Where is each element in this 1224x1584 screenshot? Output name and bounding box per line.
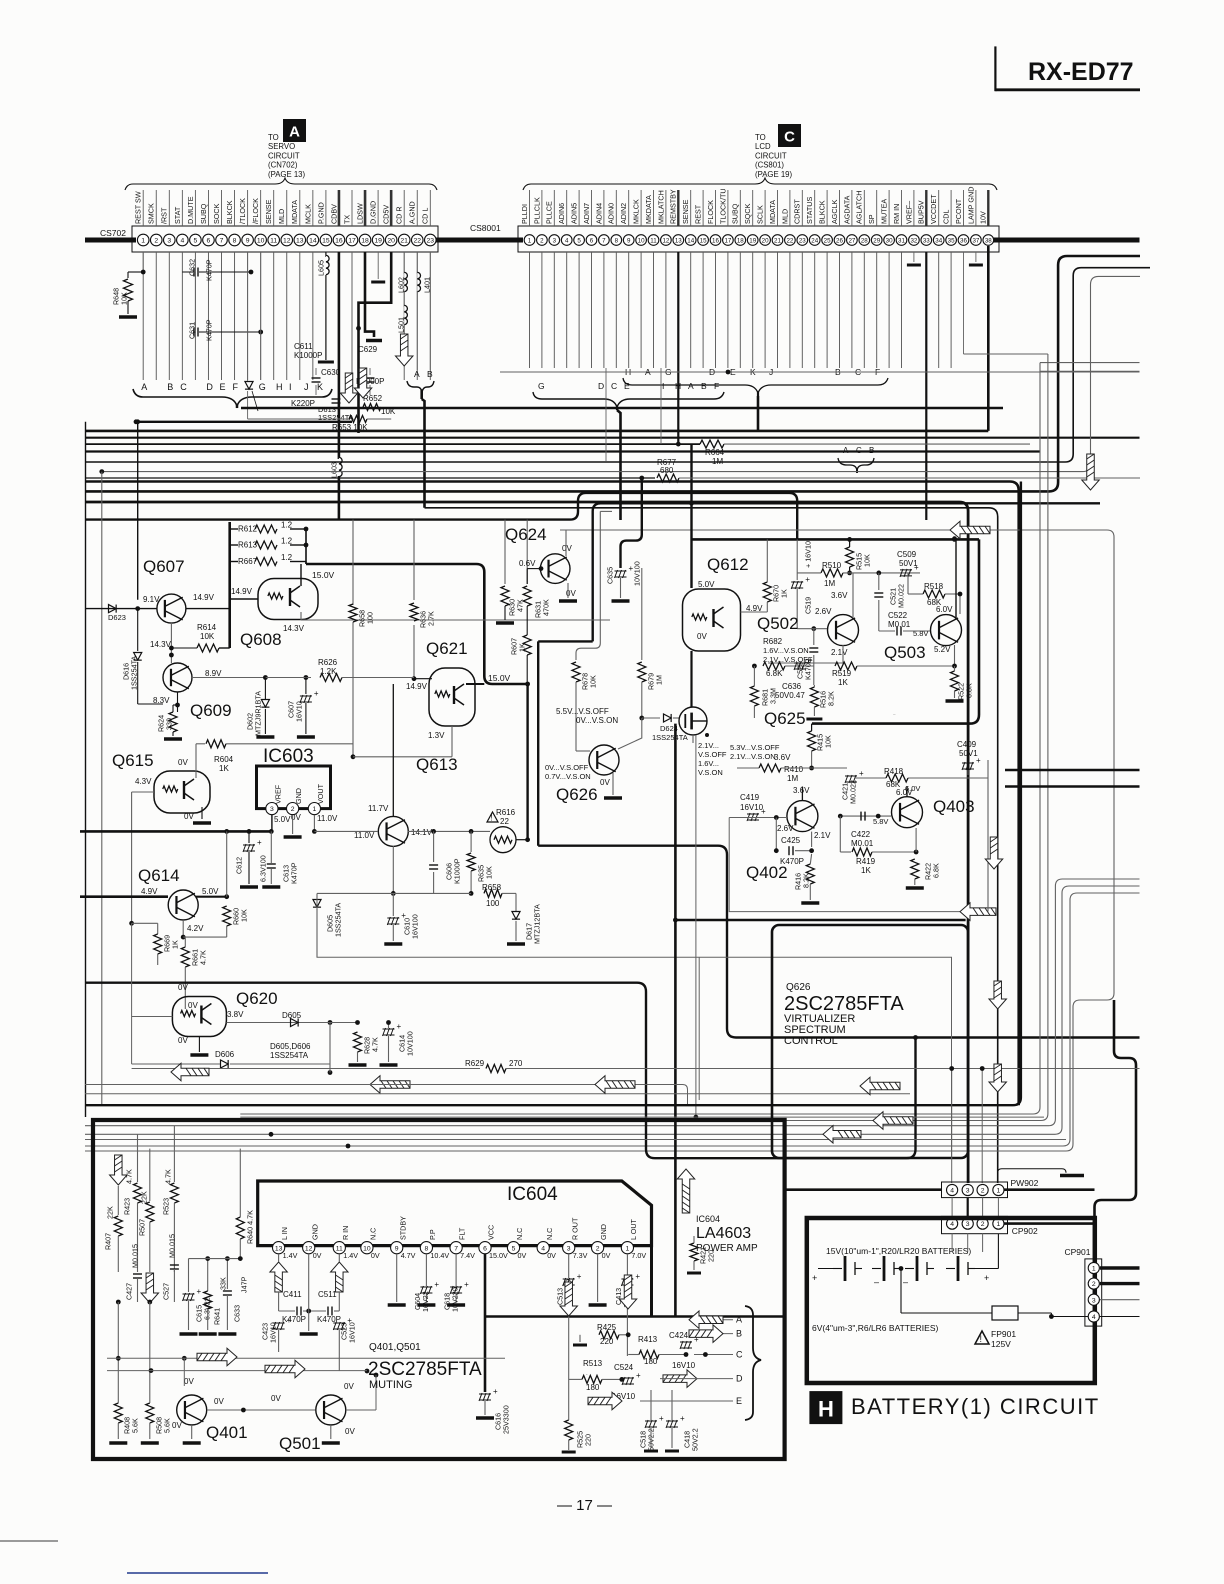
svg-text:22K: 22K	[140, 1191, 149, 1204]
resistor R658b	[349, 604, 357, 622]
capacitor C513	[563, 1272, 582, 1286]
ground pin2	[589, 1303, 607, 1307]
svg-text:20: 20	[387, 238, 395, 245]
wire CS702 pin10 upper lead	[260, 190, 262, 226]
svg-text:ADIN0: ADIN0	[607, 203, 616, 224]
wire to C607	[305, 678, 307, 695]
svg-text:/FLOCK: /FLOCK	[251, 198, 260, 224]
warning triangle R616	[487, 812, 498, 822]
svg-text:K470P: K470P	[205, 319, 214, 341]
svg-text:2: 2	[540, 238, 544, 245]
arrow left A	[689, 1311, 723, 1329]
CS8001 pin 8	[611, 235, 622, 246]
svg-text:3.3M: 3.3M	[769, 688, 778, 704]
wire thin Q402 loop	[729, 818, 964, 912]
callout box A	[283, 119, 306, 142]
svg-text:15: 15	[322, 238, 330, 245]
svg-text:8: 8	[615, 238, 619, 245]
svg-text:C: C	[611, 381, 617, 391]
wire CS702 pin17 drop	[351, 252, 353, 380]
svg-text:MTZJ9R1BTA: MTZJ9R1BTA	[254, 691, 263, 736]
bus wire y1316 section	[485, 1315, 785, 1318]
wire R423 col	[137, 1134, 139, 1182]
CP902 pin 4	[947, 1218, 958, 1229]
wire Q624 base	[527, 568, 541, 570]
wire thick PW902-CP902 pin3	[967, 1198, 969, 1217]
svg-text:PLLDI: PLLDI	[520, 204, 529, 224]
svg-text:(CS801): (CS801)	[755, 161, 784, 170]
capacitor C613	[267, 864, 276, 868]
svg-text:C519: C519	[804, 597, 813, 614]
wire CS702 pin21 upper lead	[403, 190, 405, 226]
svg-text:0V...V.S.ON: 0V...V.S.ON	[576, 716, 618, 725]
svg-text:50V0.47: 50V0.47	[775, 691, 805, 700]
svg-text:2.7K: 2.7K	[427, 611, 436, 626]
wire R635 col	[470, 831, 472, 852]
wire VOUT to Q613	[314, 830, 378, 832]
wire Q620 out	[226, 1022, 330, 1024]
svg-text:19: 19	[374, 238, 382, 245]
wire Q401 emitter	[191, 1425, 193, 1439]
svg-text:MCLK: MCLK	[303, 204, 312, 224]
wire CS8001 pin17 drop	[727, 252, 729, 368]
svg-text:470K: 470K	[542, 599, 551, 616]
inductor L602	[404, 272, 407, 291]
svg-text:AGCLK: AGCLK	[830, 199, 839, 224]
ground C615	[180, 1332, 198, 1336]
svg-text:MKLATCH: MKLATCH	[656, 190, 665, 224]
CP901 pin 4	[1088, 1311, 1099, 1322]
svg-text:SENSE: SENSE	[264, 199, 273, 224]
svg-text:100: 100	[366, 612, 375, 624]
svg-text:L501: L501	[397, 317, 406, 333]
svg-text:2: 2	[596, 1245, 600, 1252]
svg-text:(PAGE 19): (PAGE 19)	[755, 170, 793, 179]
svg-text:1.2: 1.2	[281, 553, 293, 562]
CS8001 pin 4	[561, 235, 572, 246]
wire thick x593/y503 L	[593, 503, 1100, 641]
svg-text:M0.01: M0.01	[888, 620, 911, 629]
arrow down left bank	[110, 1155, 128, 1185]
ground Q626	[604, 796, 622, 800]
capacitor C418	[666, 1414, 685, 1428]
CS8001 pin 20	[760, 235, 771, 246]
svg-text:4: 4	[950, 1221, 954, 1228]
wire CS8001 pin38 upper lead	[987, 190, 989, 226]
bus wire y462 step-up right	[85, 268, 1150, 462]
resistor R518	[923, 590, 945, 598]
arrow down x994	[985, 837, 1003, 869]
transistor Q403	[892, 797, 923, 828]
CS8001 pin 36	[958, 235, 969, 246]
CS8001 pin 15	[698, 235, 709, 246]
ground C607	[297, 735, 315, 739]
CS8001 pin 13	[673, 235, 684, 246]
svg-text:(CN702): (CN702)	[268, 161, 298, 170]
svg-text:— 17 —: — 17 —	[557, 1497, 612, 1514]
resistor R508	[146, 1403, 154, 1423]
resistor R629	[486, 1065, 506, 1073]
wire CS8001 pin17 upper lead	[727, 190, 729, 226]
diode D616	[134, 653, 142, 661]
CS8001 pin 21	[772, 235, 783, 246]
arrow down pin17 net	[340, 373, 358, 403]
transistor Q614	[168, 890, 198, 920]
svg-text:R523: R523	[162, 1198, 171, 1215]
wire bus CS8001 pin38 to right	[988, 238, 1139, 243]
svg-text:4: 4	[1092, 1314, 1096, 1321]
wire CS8001 pin25 drop	[826, 252, 828, 368]
wire CS8001 pin10 upper lead	[640, 190, 642, 226]
wire CS8001 pin28 drop	[863, 252, 865, 368]
resistor R670	[763, 582, 771, 602]
svg-text:N.C: N.C	[515, 1228, 524, 1240]
svg-text:23: 23	[799, 238, 806, 245]
svg-text:0V: 0V	[518, 1251, 527, 1260]
resistor R604	[206, 740, 226, 748]
wire Q501 col	[375, 1375, 377, 1410]
wire C633 col	[226, 1259, 228, 1289]
svg-text:CD5V: CD5V	[382, 205, 391, 224]
svg-text:7: 7	[454, 1245, 458, 1252]
svg-text:1M: 1M	[824, 579, 835, 588]
svg-text:STAT: STAT	[173, 206, 182, 224]
ground D602	[256, 735, 274, 739]
svg-text:A: A	[414, 369, 420, 379]
svg-text:IC603: IC603	[263, 746, 314, 767]
IC604 pin 9	[391, 1242, 403, 1254]
svg-text:27: 27	[848, 238, 855, 245]
svg-text:0V: 0V	[547, 1251, 556, 1260]
ground pin19 D.GND	[371, 281, 385, 284]
wire CS8001 pin13 upper lead	[677, 190, 679, 226]
bus wire y786 right	[1005, 785, 1140, 787]
wire pin33 BUP5V thick drop	[925, 252, 927, 520]
wire thick x692 down to Q612	[690, 444, 692, 588]
svg-text:34: 34	[935, 238, 942, 245]
svg-text:18: 18	[361, 238, 369, 245]
capacitor C521	[874, 593, 883, 597]
svg-text:19: 19	[749, 238, 756, 245]
resistor R607	[523, 635, 531, 655]
svg-text:5.2V: 5.2V	[934, 645, 951, 654]
wire Q502 base	[797, 628, 827, 630]
svg-text:6.0V: 6.0V	[896, 788, 913, 797]
svg-text:1SS254TA: 1SS254TA	[652, 733, 688, 742]
wire Q503 collector up	[955, 539, 957, 618]
capacitor C606	[429, 865, 438, 869]
brace A B	[407, 381, 434, 392]
wire thin boundary y957	[317, 899, 952, 1157]
resistor R408	[114, 1403, 122, 1423]
capacitor C524	[622, 1371, 641, 1385]
transistor Q612	[683, 589, 741, 651]
wire pin20 CD5V thick	[359, 252, 392, 433]
svg-text:–: –	[903, 1277, 908, 1287]
svg-text:D: D	[598, 381, 604, 391]
svg-text:10: 10	[257, 238, 265, 245]
CS8001 pin 32	[909, 235, 920, 246]
svg-text:15.0V: 15.0V	[489, 1251, 508, 1260]
transistor Q401	[177, 1395, 207, 1425]
svg-text:24: 24	[811, 238, 818, 245]
battery cell 1	[833, 1256, 862, 1281]
diode D605b	[313, 900, 321, 908]
wire CS8001 pin31 drop	[901, 252, 903, 368]
svg-text:2.1V: 2.1V	[814, 831, 831, 840]
bus wire y444	[85, 443, 700, 445]
wire Q624 emitter	[567, 583, 569, 598]
inductor L501	[404, 305, 407, 324]
CS702 pin 10	[255, 234, 267, 246]
resistor R516	[810, 687, 818, 707]
wire into Q608	[230, 598, 258, 600]
resistor R513	[582, 1375, 602, 1383]
svg-text:3: 3	[567, 1245, 571, 1252]
ground Q401	[183, 1441, 201, 1445]
connector CP902 box	[942, 1216, 1008, 1233]
IC604 pin 13	[273, 1242, 285, 1254]
svg-text:3: 3	[1092, 1297, 1096, 1304]
svg-text:5.8V: 5.8V	[913, 629, 928, 638]
audio section frame	[93, 1120, 785, 1459]
CS702 pin 2	[150, 234, 162, 246]
svg-text:R519: R519	[832, 669, 852, 678]
svg-text:0V: 0V	[313, 1251, 322, 1260]
svg-text:16V10: 16V10	[672, 1361, 696, 1370]
svg-text:C633: C633	[233, 1305, 242, 1322]
ground R425	[573, 1344, 587, 1347]
bus wire y831 VREF rail	[80, 830, 271, 833]
svg-text:4.3V: 4.3V	[135, 777, 152, 786]
svg-text:M0.015: M0.015	[168, 1234, 177, 1258]
wire CS702 pin23 drop	[429, 252, 431, 380]
capacitor C518	[645, 1414, 664, 1428]
PW902 pin 3	[962, 1184, 973, 1195]
svg-text:Q615: Q615	[112, 751, 154, 770]
svg-text:R667: R667	[238, 557, 258, 566]
svg-text:15.0V: 15.0V	[488, 673, 511, 683]
wire y1371	[107, 1370, 367, 1372]
capacitor C523	[333, 1316, 352, 1330]
capacitor C615	[183, 1287, 202, 1301]
svg-text:/TLOCK: /TLOCK	[238, 198, 247, 224]
svg-text:L OUT: L OUT	[629, 1218, 638, 1240]
wire CS8001 pin16 upper lead	[715, 190, 717, 226]
svg-text:7: 7	[220, 238, 224, 245]
svg-text:10: 10	[638, 238, 645, 245]
svg-text:7.0V: 7.0V	[631, 1251, 646, 1260]
svg-text:D606: D606	[215, 1050, 235, 1059]
wire E out	[640, 1400, 733, 1402]
svg-text:PCONT: PCONT	[954, 198, 963, 224]
wire Q403 collector up	[906, 787, 908, 797]
wire CS8001 pin25 upper lead	[826, 190, 828, 226]
capacitor C522	[897, 627, 901, 636]
resistor R422	[911, 859, 919, 879]
wire y893	[317, 892, 471, 894]
svg-text:I: I	[662, 381, 664, 391]
bus wire y478 R677 line	[85, 477, 655, 479]
wire x85 left rail	[85, 422, 87, 1117]
svg-text:D: D	[206, 382, 213, 392]
junction Q625 source	[705, 733, 709, 737]
bus wire y1105 corner up x1021	[85, 482, 1021, 1106]
svg-text:1: 1	[1092, 1266, 1096, 1273]
resistor R652	[363, 404, 381, 411]
wire CS702 pin17 upper lead	[351, 190, 353, 226]
svg-text:Q503: Q503	[884, 643, 926, 662]
wire x138 to D616	[137, 609, 139, 651]
svg-text:CS8001: CS8001	[470, 223, 501, 233]
wire thick x538 down	[537, 641, 539, 845]
ground pin32	[907, 264, 921, 267]
svg-text:1M: 1M	[787, 774, 798, 783]
svg-text:MUTEA: MUTEA	[880, 199, 889, 224]
blue mark	[127, 1572, 268, 1574]
svg-text:5.8V: 5.8V	[873, 817, 888, 826]
CS8001 pin 38	[983, 235, 994, 246]
CS702 pin 11	[268, 234, 280, 246]
transistor Q608	[258, 579, 318, 620]
svg-text:20: 20	[762, 238, 769, 245]
wire C521 col	[878, 573, 880, 590]
svg-text:0V: 0V	[184, 812, 194, 821]
svg-text:4: 4	[541, 1245, 545, 1252]
svg-text:16V10: 16V10	[295, 701, 304, 722]
transistor Q624	[540, 554, 570, 584]
svg-text:25V3300: 25V3300	[502, 1405, 511, 1434]
capacitor C419	[747, 807, 766, 821]
svg-text:BATTERY(1) CIRCUIT: BATTERY(1) CIRCUIT	[851, 1394, 1100, 1419]
wire C519 col	[796, 539, 798, 580]
svg-text:12: 12	[283, 238, 291, 245]
svg-text:Q609: Q609	[190, 701, 232, 720]
svg-text:C511: C511	[318, 1290, 337, 1299]
CS702 pin 18	[359, 234, 371, 246]
capacitor C636	[794, 656, 813, 670]
svg-text:+ 16V10: + 16V10	[804, 541, 813, 568]
svg-text:RX-ED77: RX-ED77	[1028, 58, 1134, 86]
ground C610	[384, 942, 402, 946]
wire y1068 R629 line	[132, 1068, 480, 1070]
capacitor C511	[328, 1307, 332, 1316]
ground R648	[119, 315, 137, 319]
wire y1358	[107, 1357, 505, 1359]
svg-text:1.2: 1.2	[281, 521, 293, 530]
svg-text:30: 30	[886, 238, 893, 245]
wire CS702 pin9 drop	[247, 252, 249, 380]
svg-text:G: G	[259, 382, 266, 392]
svg-text:16V10: 16V10	[348, 1322, 357, 1343]
wire CS8001 pin22 drop	[789, 252, 791, 368]
ground pin37	[969, 264, 983, 267]
svg-text:2.1V...V.S.ON: 2.1V...V.S.ON	[730, 752, 776, 761]
transistor Q502	[828, 615, 859, 646]
capacitor C509	[900, 563, 919, 577]
svg-text:+: +	[761, 807, 766, 816]
IC604 pin 2	[592, 1242, 604, 1254]
wire CS702 pin10 drop	[260, 252, 262, 380]
CS702 pin 5	[190, 234, 202, 246]
svg-text:4: 4	[180, 238, 184, 245]
ground R421	[687, 1272, 701, 1275]
wire CS702 pin14 drop	[312, 252, 314, 380]
CS702 pin 15	[320, 234, 332, 246]
svg-text:GND: GND	[294, 788, 303, 804]
brace under CS8001 right group	[623, 378, 888, 393]
resistor R626	[320, 674, 342, 682]
wire R670 up to rail	[766, 539, 768, 582]
CS8001 pin 27	[847, 235, 858, 246]
wire CS8001 pin14 drop	[690, 252, 692, 368]
wire gray y1117	[240, 1116, 1044, 1118]
svg-text:V.S.ON: V.S.ON	[698, 768, 723, 777]
resistor R630	[501, 586, 509, 606]
svg-text:(PAGE 13): (PAGE 13)	[268, 170, 306, 179]
arrow up pin11	[331, 1262, 349, 1292]
CS702 pin 7	[216, 234, 228, 246]
CS8001 pin 23	[797, 235, 808, 246]
wire gray y530 right margin loop	[85, 530, 1114, 1151]
svg-text:0V: 0V	[178, 1036, 188, 1045]
wire R523 col	[173, 1126, 175, 1182]
bus wire y481 corner down x1019	[85, 482, 1019, 1106]
arrow right y1369	[265, 1360, 305, 1378]
svg-text:R613: R613	[238, 541, 258, 550]
wire C615 col	[188, 1259, 190, 1292]
svg-text:12: 12	[662, 238, 669, 245]
svg-text:5.3V...V.S.OFF: 5.3V...V.S.OFF	[730, 743, 780, 752]
wire x132 down to D606	[131, 923, 133, 1064]
capacitor C632	[194, 268, 198, 277]
svg-text:1.4V: 1.4V	[343, 1251, 358, 1260]
diode D605	[291, 1018, 299, 1026]
wire pin10 drop	[260, 252, 262, 380]
wire thin boundary x699	[698, 957, 700, 1100]
svg-text:0V: 0V	[562, 544, 572, 553]
svg-text:R507: R507	[138, 1219, 147, 1236]
brace above CS702	[125, 178, 437, 190]
resistor R682	[763, 662, 785, 670]
wire Q501 emitter	[330, 1425, 332, 1439]
svg-text:4.7V: 4.7V	[401, 1251, 416, 1260]
svg-text:Q612: Q612	[707, 555, 749, 574]
svg-text:3: 3	[167, 238, 171, 245]
wire gray y371	[1040, 370, 1140, 372]
wire CS8001 pin16 drop	[715, 252, 717, 368]
wire x414 drop	[413, 520, 415, 600]
svg-text:Q613: Q613	[416, 755, 458, 774]
wire CP902 pin1 to battery	[997, 1234, 999, 1269]
wire pin4 link	[951, 1198, 953, 1217]
transistor Q607	[157, 594, 186, 623]
wire CS702 pin7 drop	[221, 252, 223, 380]
wire x606 drop	[605, 368, 607, 461]
wire gray to R678	[576, 511, 600, 660]
wire thick x675 long vertical	[674, 724, 677, 1317]
svg-text:14.9V: 14.9V	[231, 587, 253, 596]
resistor R616 thermal	[490, 827, 516, 853]
ground R416	[801, 901, 819, 905]
wire CS702 pin1 upper lead	[142, 190, 144, 226]
svg-text:L602: L602	[397, 277, 406, 293]
svg-text:+: +	[635, 1272, 640, 1281]
wire CS8001 pin21 drop	[777, 252, 779, 368]
wire pin15	[325, 252, 327, 257]
svg-text:A: A	[141, 382, 147, 392]
svg-text:0V: 0V	[178, 758, 188, 767]
